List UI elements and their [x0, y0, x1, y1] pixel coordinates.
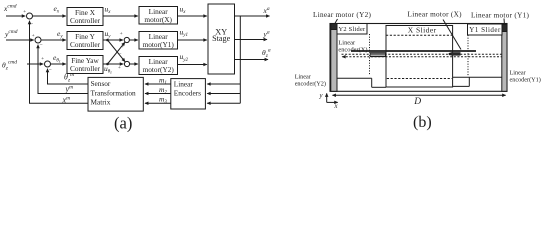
svg-text:(a): (a) — [114, 114, 132, 133]
wire diagonal u_y branch to J2 — [108, 40, 126, 62]
wire x_cmd input — [6, 15, 25, 17]
right foot vertical — [468, 77, 470, 86]
svg-text:motor(Y2): motor(Y2) — [143, 65, 175, 74]
svg-text:uy2: uy2 — [180, 52, 189, 63]
dimension line D — [333, 94, 506, 96]
left foot vertical — [371, 78, 373, 87]
wire y_cmd input — [6, 39, 34, 41]
svg-text:−: − — [49, 67, 52, 73]
svg-text:+: + — [41, 56, 44, 62]
svg-text:+: + — [120, 31, 123, 37]
svg-text:uy1: uy1 — [180, 27, 188, 38]
node branch dot row2 — [106, 39, 109, 42]
leader Linear motor Y2 — [335, 19, 338, 23]
dotted guide below Y2 slider — [369, 34, 371, 76]
svg-text:Controller: Controller — [70, 16, 101, 25]
svg-text:Sensor: Sensor — [91, 79, 111, 88]
svg-text:Y2 Slider: Y2 Slider — [339, 26, 367, 33]
wire S3 to Fine Yaw Controller — [51, 63, 66, 65]
wire motor X to XY stage — [178, 15, 207, 17]
wire S1 to Fine X Controller — [33, 15, 66, 17]
svg-text:Linear motor (X): Linear motor (X) — [408, 10, 463, 18]
svg-text:−: − — [39, 42, 42, 48]
svg-text:y: y — [319, 93, 324, 100]
X encoder dashed scale upper — [342, 53, 502, 55]
wire vertical feedback bus — [239, 16, 241, 103]
wire m3 — [145, 102, 171, 104]
linear motor Y1 bar — [502, 24, 507, 92]
svg-text:xa: xa — [263, 6, 270, 15]
svg-text:Linear motor (Y2): Linear motor (Y2) — [313, 11, 371, 19]
svg-text:Controller: Controller — [70, 40, 101, 49]
svg-text:+: + — [121, 44, 124, 50]
svg-text:ey: ey — [57, 29, 63, 40]
svg-text:Stage: Stage — [212, 34, 231, 43]
svg-text:−: − — [118, 51, 121, 57]
block Fine Y Controller — [67, 32, 103, 50]
X encoder read head — [370, 52, 386, 57]
left foot bottom — [372, 86, 386, 88]
svg-text:uθz: uθz — [104, 64, 112, 75]
svg-text:x: x — [334, 103, 338, 110]
wire motor Y2 to XY stage — [178, 64, 207, 66]
block Y1 Slider — [468, 24, 503, 35]
leader Linear motor Y1 — [503, 19, 505, 25]
Y2 bar carriage magnet — [331, 24, 337, 30]
leader Linear motor X — [443, 20, 461, 50]
X encoder dashed scale lower with arrow — [342, 56, 501, 58]
stage outer frame — [330, 24, 507, 92]
svg-text:eθz: eθz — [53, 53, 61, 64]
right rail top — [453, 76, 502, 78]
svg-text:D: D — [413, 97, 421, 107]
wire theta_m feedback — [48, 69, 89, 84]
block Linear motor Y2 — [139, 57, 178, 75]
block Linear motor Y1 — [139, 32, 178, 50]
dotted guide below Y1 slider — [467, 35, 469, 77]
block Linear Encoders — [171, 79, 206, 109]
block Linear motor X — [139, 7, 178, 25]
wire motor Y1 to XY stage — [178, 39, 207, 41]
X carriage block — [451, 52, 461, 55]
svg-text:motor(X): motor(X) — [144, 15, 172, 24]
wire S2 to Fine Y Controller — [41, 39, 66, 41]
block X Slider body — [386, 26, 453, 88]
svg-text:ya: ya — [263, 30, 270, 39]
svg-text:Linear: Linear — [174, 80, 194, 89]
svg-text:encoder(Y2): encoder(Y2) — [295, 81, 326, 88]
wire J1 to Linear motor Y1 — [129, 39, 137, 41]
block XY Stage — [208, 4, 235, 74]
svg-text:(b): (b) — [413, 114, 432, 131]
wire encoder input 2 — [207, 93, 240, 95]
svg-text:ex: ex — [54, 4, 60, 15]
svg-text:encoder(Y1): encoder(Y1) — [510, 77, 541, 84]
right foot bottom — [453, 85, 470, 87]
svg-text:encoder(X): encoder(X) — [338, 47, 367, 54]
block Y2 Slider — [337, 24, 367, 35]
carriage dot — [449, 53, 451, 55]
wire u_theta to junction J2 — [103, 63, 123, 65]
wire theta_cmd input — [27, 63, 43, 65]
summing junction S1 — [27, 13, 33, 19]
svg-text:Y1 Slider: Y1 Slider — [469, 26, 501, 34]
X motor beam — [351, 50, 476, 52]
node branch dot row3 — [106, 63, 109, 66]
svg-text:Transformation: Transformation — [91, 88, 136, 97]
wire output x_a — [235, 15, 270, 17]
junction J2 — [124, 61, 129, 66]
svg-text:−: − — [30, 21, 33, 27]
wire output theta_a — [235, 59, 269, 61]
svg-text:ux: ux — [105, 5, 112, 16]
coordinate axis x — [327, 101, 338, 103]
junction J1 — [124, 37, 129, 42]
wire m2 — [145, 93, 171, 95]
svg-text:Matrix: Matrix — [91, 98, 111, 107]
svg-text:Linear: Linear — [338, 40, 356, 47]
wire y_m feedback — [38, 45, 88, 94]
svg-text:Linear: Linear — [510, 70, 526, 77]
wire J2 to Linear motor Y2 — [130, 63, 138, 65]
Y1 bar carriage magnet — [502, 25, 507, 32]
wire m1 — [145, 83, 171, 85]
svg-text:motor(Y1): motor(Y1) — [143, 40, 175, 49]
svg-text:X Slider: X Slider — [408, 26, 437, 35]
svg-text:+: + — [32, 33, 35, 39]
wire encoder input 3 — [207, 102, 240, 104]
svg-text:Linear motor (Y1): Linear motor (Y1) — [471, 11, 529, 19]
svg-text:ux: ux — [180, 4, 187, 15]
svg-text:ym: ym — [65, 85, 74, 94]
svg-text:θza: θza — [262, 47, 271, 59]
wire encoder input 1 — [207, 83, 240, 85]
svg-text:ycmd: ycmd — [4, 29, 18, 38]
svg-text:Controller: Controller — [70, 64, 101, 73]
wire diagonal u_theta branch to J1 — [108, 42, 125, 64]
left foot rail top — [337, 77, 372, 79]
linear motor Y2 bar — [331, 24, 337, 92]
block Fine Yaw Controller — [67, 56, 103, 74]
wire u_y to junction J1 — [103, 39, 123, 41]
block Fine X Controller — [67, 8, 103, 26]
X Slider lower dashed line — [387, 78, 452, 80]
wire x_m feedback — [30, 21, 89, 104]
svg-text:Linear: Linear — [295, 73, 311, 80]
wire output y_a — [235, 39, 268, 41]
X Slider inner dashed line — [386, 34, 453, 36]
svg-text:+: + — [118, 65, 121, 71]
svg-text:θzcmd: θzcmd — [2, 60, 17, 72]
svg-text:Encoders: Encoders — [174, 89, 201, 98]
wire u_x to Linear motor X — [103, 15, 138, 17]
block Sensor Transformation Matrix — [88, 77, 143, 111]
svg-text:uy: uy — [105, 29, 112, 40]
coordinate axis y — [326, 93, 328, 102]
summing junction S3 — [45, 61, 51, 67]
svg-text:+: + — [23, 9, 26, 15]
summing junction S2 — [35, 37, 41, 43]
svg-text:xcmd: xcmd — [3, 4, 17, 13]
